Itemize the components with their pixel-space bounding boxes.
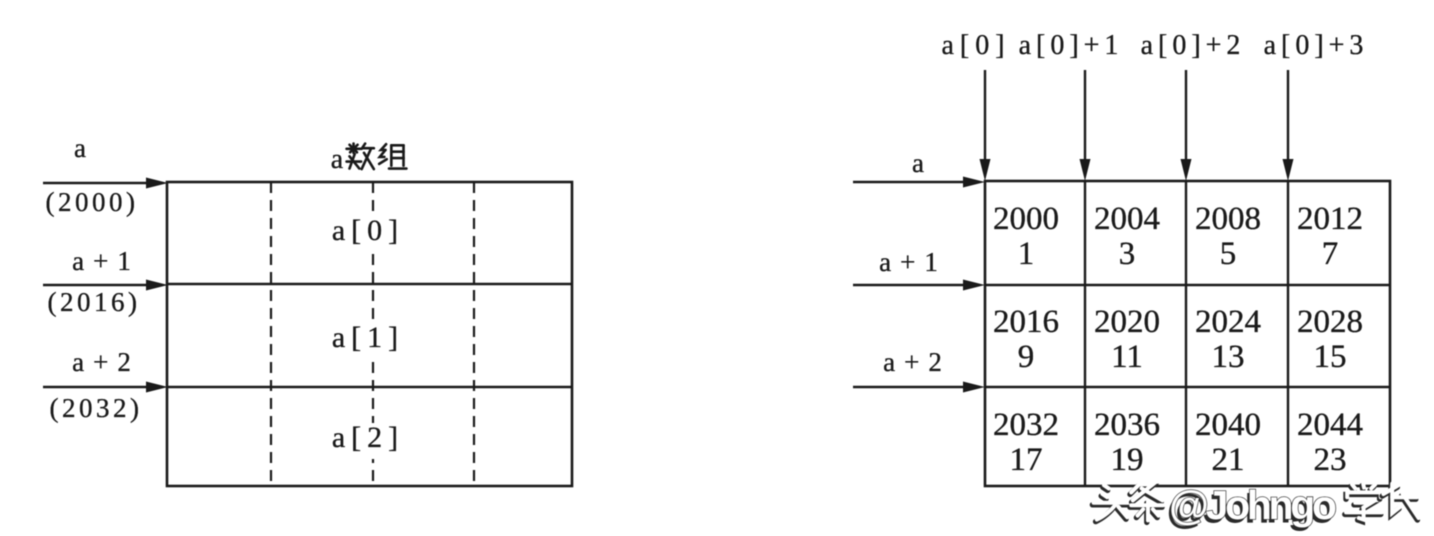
svg-text:2004: 2004 <box>1094 201 1160 237</box>
svg-text:11: 11 <box>1111 339 1143 375</box>
cell label a[1] <box>330 323 404 359</box>
right table col line 3 <box>1287 181 1289 486</box>
svg-text:a+1: a+1 <box>72 246 140 276</box>
svg-text:2016: 2016 <box>993 304 1059 340</box>
svg-text:2000: 2000 <box>993 201 1059 237</box>
svg-text:23: 23 <box>1314 442 1347 478</box>
right table col line 2 <box>1185 181 1187 486</box>
svg-text:2040: 2040 <box>1195 407 1261 443</box>
wire arrow a+1 (right) <box>853 284 967 286</box>
down arrow 4 <box>1287 70 1289 162</box>
wire arrow a+1 <box>43 284 150 286</box>
title glyph 数 <box>347 144 374 170</box>
left table dashed column 3 <box>473 182 475 486</box>
wire arrow a <box>43 182 150 184</box>
svg-text:9: 9 <box>1018 339 1035 375</box>
svg-text:2012: 2012 <box>1297 201 1363 237</box>
cell label a[2] <box>330 423 404 459</box>
left table row line 1 <box>167 283 572 285</box>
watermark glyph 头 <box>1092 485 1130 521</box>
cell label a[0] <box>330 216 404 252</box>
svg-text:2044: 2044 <box>1297 407 1363 443</box>
svg-text:(2016): (2016) <box>48 287 141 317</box>
svg-text:a[0]+1: a[0]+1 <box>1019 30 1124 61</box>
svg-text:2032: 2032 <box>993 407 1059 443</box>
down arrow 3 <box>1185 70 1187 162</box>
svg-text:3: 3 <box>1119 236 1136 272</box>
svg-text:17: 17 <box>1010 442 1043 478</box>
svg-text:a: a <box>331 144 344 175</box>
svg-text:7: 7 <box>1322 236 1339 272</box>
svg-text:(2032): (2032) <box>50 393 143 423</box>
svg-text:2008: 2008 <box>1195 201 1261 237</box>
svg-text:19: 19 <box>1111 442 1144 478</box>
svg-text:a[0]: a[0] <box>332 214 404 247</box>
svg-text:15: 15 <box>1314 339 1347 375</box>
svg-text:a+2: a+2 <box>72 347 140 377</box>
svg-text:a[1]: a[1] <box>332 321 404 354</box>
right table col line 1 <box>1084 181 1086 486</box>
svg-text:1: 1 <box>1018 236 1035 272</box>
svg-text:21: 21 <box>1212 442 1245 478</box>
svg-text:a: a <box>74 133 86 163</box>
watermark glyph 长 <box>1382 484 1418 520</box>
svg-text:@Johngo: @Johngo <box>1169 482 1337 528</box>
svg-text:a: a <box>912 148 924 178</box>
down arrow 2 <box>1084 70 1086 162</box>
svg-text:(2000): (2000) <box>46 187 139 217</box>
svg-text:a+2: a+2 <box>883 347 951 377</box>
svg-text:a[0]+2: a[0]+2 <box>1141 30 1246 61</box>
svg-text:5: 5 <box>1220 236 1237 272</box>
svg-text:2020: 2020 <box>1094 304 1160 340</box>
right table row line 1 <box>985 284 1390 286</box>
svg-text:a[0]: a[0] <box>941 30 1010 61</box>
svg-text:2024: 2024 <box>1195 304 1261 340</box>
right table outer box <box>985 181 1390 486</box>
svg-text:a+1: a+1 <box>879 247 947 277</box>
right table row line 2 <box>985 386 1390 388</box>
left table row line 2 <box>167 386 572 388</box>
watermark glyph 条 <box>1130 484 1163 523</box>
down arrow 1 <box>984 70 986 162</box>
wire arrow a+2 <box>43 386 150 388</box>
left table dashed column 1 <box>270 182 272 486</box>
svg-text:a[2]: a[2] <box>332 421 404 454</box>
wire arrow a (right) <box>853 181 967 183</box>
svg-text:13: 13 <box>1212 339 1245 375</box>
title glyph 组 <box>379 144 406 168</box>
left table dashed column 2 <box>372 182 374 486</box>
left table outer box <box>167 182 572 486</box>
wire arrow a+2 (right) <box>853 386 967 388</box>
svg-text:a[0]+3: a[0]+3 <box>1264 30 1369 61</box>
watermark glyph 学 <box>1345 484 1382 522</box>
svg-text:2036: 2036 <box>1094 407 1160 443</box>
svg-text:2028: 2028 <box>1297 304 1363 340</box>
